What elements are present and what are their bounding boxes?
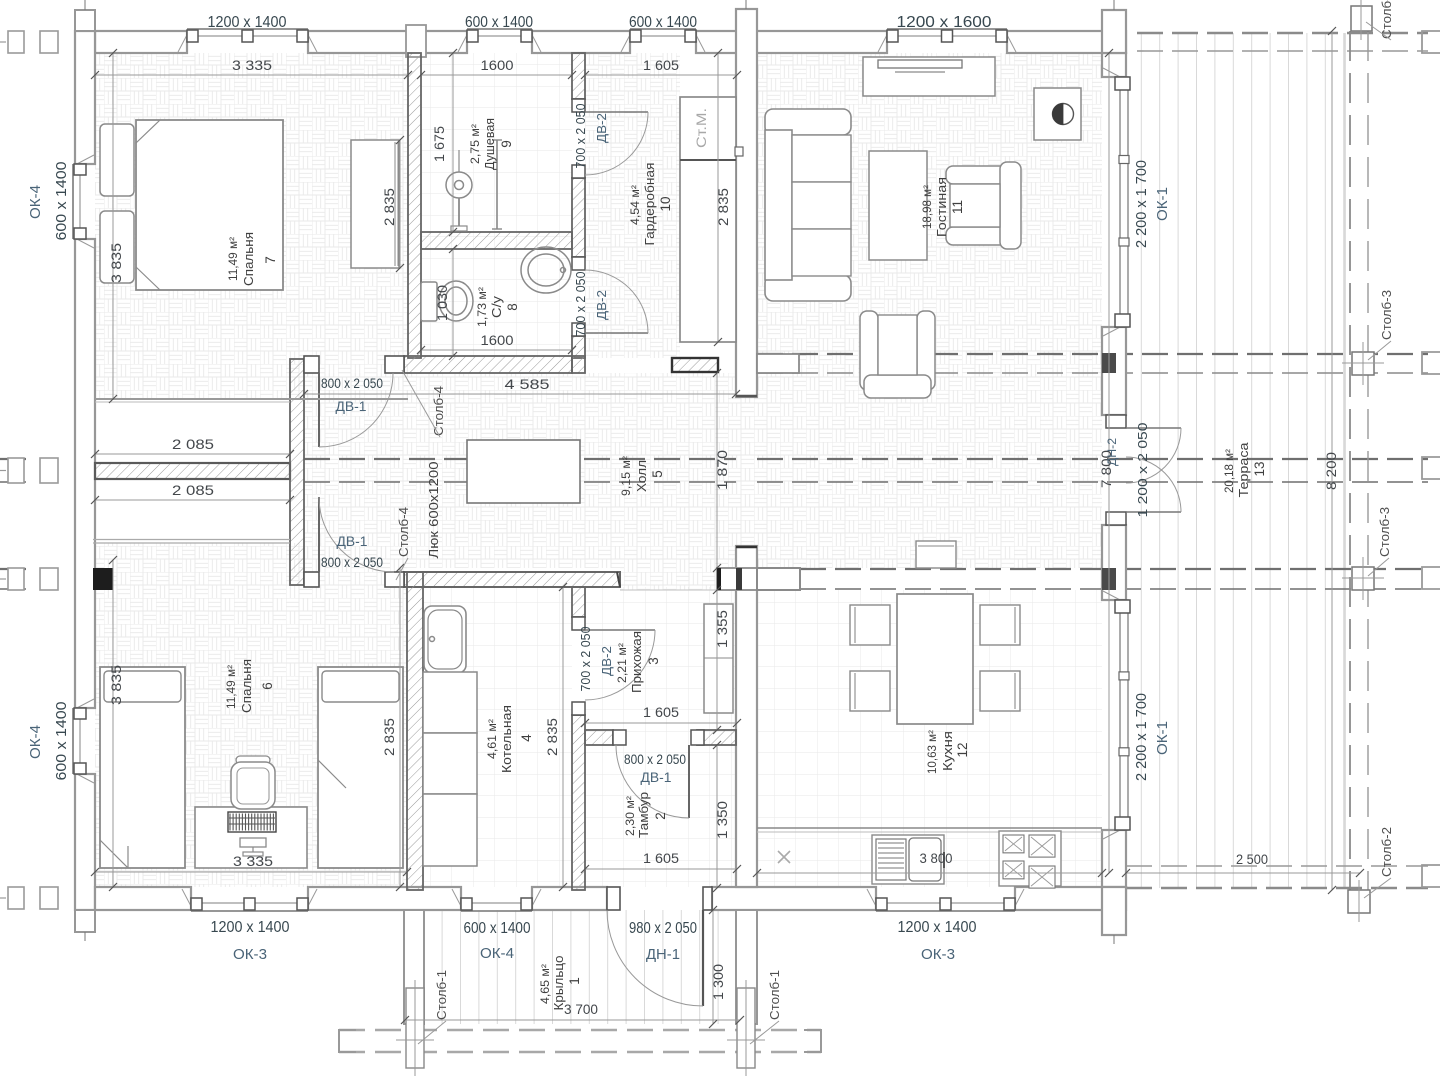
svg-text:600 x 1400: 600 x 1400 [464,920,531,937]
dresser bedroom 7 [351,140,399,268]
svg-text:20,18 м²: 20,18 м² [1224,449,1236,493]
dimension 3335 bedroom 6 [95,871,407,873]
door terrace double 1200x2050 with swing arcs [1106,415,1126,428]
svg-text:Столб-3: Столб-3 [1380,290,1394,340]
dimension 2835 bedroom 6 vertical [399,568,401,887]
svg-text:4,65 м²: 4,65 м² [540,964,552,1004]
wall central vertical upper [736,9,757,397]
dimension 1675 shower vertical [452,53,454,232]
floor parquet hall-living opening [736,397,757,546]
terrace post stolb-2 bottom right [1348,890,1370,913]
svg-text:8: 8 [505,303,520,311]
door DV-1 tambour with swing arc [613,730,626,745]
dimension 3700 porch [405,1019,740,1021]
svg-text:1200 x 1400: 1200 x 1400 [211,919,290,936]
svg-text:1 605: 1 605 [643,850,679,866]
svg-text:1 200 х 2 050: 1 200 х 2 050 [1135,423,1150,518]
svg-text:700 x 2 050: 700 x 2 050 [573,104,588,169]
svg-text:6: 6 [260,682,275,690]
svg-text:9,15 м²: 9,15 м² [621,456,633,496]
dimension 1605 tambour [585,868,737,870]
svg-text:7: 7 [263,256,278,264]
dimension 3335 bedroom 7 [95,74,408,76]
kitchen sink with drainer [872,835,944,884]
monitor on desk [240,838,266,847]
armchair 2 living room [860,311,878,390]
svg-text:3 335: 3 335 [233,853,273,869]
floor parquet dressing room 10 [585,53,680,358]
sofa living room 11 [765,109,851,135]
svg-text:4,61 м²: 4,61 м² [487,719,499,759]
porch post foundation right [737,988,755,1068]
svg-text:800 x 2 050: 800 x 2 050 [321,376,383,391]
svg-text:13: 13 [1252,461,1267,476]
svg-text:Тамбур: Тамбур [637,792,651,838]
bed double bedroom 7 [136,120,283,290]
svg-text:8 200: 8 200 [1324,452,1339,490]
log wall stubs left at y=31 [8,31,24,53]
svg-text:700 x 2 050: 700 x 2 050 [578,627,593,692]
svg-text:Столб-4: Столб-4 [397,507,411,557]
svg-text:ОК-1: ОК-1 [1155,721,1171,755]
window OK-3 top wall 1200x1400 [178,31,189,52]
desk chair bedroom 6 [236,756,270,764]
svg-text:3 835: 3 835 [109,243,124,283]
window OK-4b top wall 600x1400 [621,31,632,52]
svg-text:600 x 1400: 600 x 1400 [53,162,70,241]
bedroom7 niche line [95,398,290,400]
svg-text:Крыльцо: Крыльцо [552,955,566,1010]
svg-text:2 200 x 1 700: 2 200 x 1 700 [1133,160,1150,248]
dimension 3835 bedroom 7 vertical [112,53,114,399]
wall wc-dressing (hatched) segments with door openings [572,53,585,99]
floor tiles boiler room 4 [423,587,572,887]
svg-text:12: 12 [955,742,970,757]
svg-text:10,63 м²: 10,63 м² [927,730,939,774]
dark post at left wall axis B [93,568,113,590]
svg-text:Столб-2: Столб-2 [1380,827,1394,877]
dimension 1350 tambour vertical [716,745,718,888]
svg-text:2 085: 2 085 [172,436,214,452]
door DV-1 hall south with swing arc [318,497,320,572]
svg-text:1 350: 1 350 [715,801,730,839]
terrace dashed open side right [1349,31,1351,890]
porch step dashed lines with end brackets [339,1029,821,1032]
shower head symbol room 9 [446,172,472,198]
svg-text:1600: 1600 [481,332,514,348]
log post bottom-left corner [75,910,95,932]
svg-text:ДН-1: ДН-1 [646,946,680,963]
svg-text:Душевая: Душевая [483,118,497,170]
floor parquet hall 5 [304,373,736,568]
dimension 1355 entry vertical [716,590,718,730]
window OK-4 bottom porch 600x1400 [452,889,463,910]
svg-text:Холл: Холл [635,460,649,492]
svg-text:ДВ-1: ДВ-1 [641,770,672,785]
wall arm right of central wall at pair 1 [757,354,799,373]
svg-text:5: 5 [650,470,665,478]
door DV-1 hall north with swing arc [318,373,320,447]
svg-text:18,98 м²: 18,98 м² [922,185,934,229]
svg-text:Люк 600х1200: Люк 600х1200 [426,462,441,559]
post white at hall south door [385,572,404,587]
svg-text:11: 11 [950,200,965,214]
svg-text:ОК-4: ОК-4 [28,725,44,759]
svg-text:3: 3 [646,657,661,665]
floor tiles kitchen 12 [757,590,1102,887]
dimension 1300 porch vertical [712,910,714,1024]
svg-text:Спальня: Спальня [242,232,256,286]
svg-text:1200 x 1600: 1200 x 1600 [897,14,992,31]
log post cross top central wall [745,0,747,9]
wall partition corridor niches (hatched) [95,463,290,479]
svg-text:11,49 м²: 11,49 м² [228,237,240,281]
wall boiler-entry (hatched) with door opening [572,587,585,617]
svg-text:Гардеробная: Гардеробная [643,163,657,246]
svg-text:1 870: 1 870 [715,450,730,490]
log wall stubs left at y=887 [8,887,24,909]
svg-text:Столб-1: Столб-1 [768,970,782,1020]
svg-text:1: 1 [567,977,582,985]
dimension 2835 dresser vertical [399,140,401,268]
dimension 2085 corridor lower [95,499,290,501]
svg-text:1 675: 1 675 [432,126,447,162]
threshold hall-entry [620,589,717,591]
terrace post stolb-2 top right [1351,6,1372,31]
dimension 1600 wc bottom [421,349,572,351]
kitchen stove 4 burners [999,831,1061,886]
marker x on kitchen counter [778,851,790,863]
armchair 1 living room [946,166,1014,184]
svg-text:1 605: 1 605 [643,704,679,720]
svg-text:ОК-4: ОК-4 [480,945,514,962]
svg-text:Столб-4: Столб-4 [432,386,446,436]
keyboard on desk [228,812,276,832]
beam dashed pair axis A hall [0,458,30,460]
axis brackets far right [1422,31,1440,53]
dimension 1605 entry [585,722,737,724]
dimension 7800 right rooms vertical [1108,53,1110,873]
wall central vertical lower [736,546,757,887]
dimension 4585 hall [304,393,736,395]
beam dashed pair axis B kitchen [0,568,30,570]
wardrobe dressing room 10 with washing machine [680,97,736,342]
svg-text:980 x 2 050: 980 x 2 050 [629,920,697,937]
bathtub boiler room [424,606,466,673]
floor tiles shower 9 and wc 8 [421,53,572,358]
dimension 1030 wc vertical [452,249,454,356]
dimension 2835 wardrobe vertical [717,53,719,342]
dimension 1605 dressing [585,74,737,76]
svg-text:2 085: 2 085 [172,482,214,498]
porch post foundation left [406,988,424,1068]
svg-text:4: 4 [519,734,534,742]
svg-text:ДВ-1: ДВ-1 [336,399,367,414]
window OK-4a top wall 600x1400 [458,31,469,52]
svg-text:ДВ-2: ДВ-2 [594,290,609,320]
svg-text:1 355: 1 355 [715,610,730,648]
svg-text:2 835: 2 835 [382,188,397,226]
fireplace living room [1034,88,1081,140]
window OK-3 bottom-right 1200x1400 [867,889,878,910]
svg-text:2: 2 [653,812,668,820]
svg-text:ОК-4: ОК-4 [28,185,44,219]
door frame hall north door left [304,356,319,373]
porch wall right [736,910,757,1024]
svg-text:4 585: 4 585 [505,376,550,392]
dark post central wall at axis B [736,568,742,590]
desk bedroom 6 [195,807,307,868]
log wall stubs left at y=568 [8,568,24,590]
wall stub hall-entry divider [717,568,757,590]
terrace dashed edge top [1137,32,1428,34]
dimension 8200 terrace vertical [1331,31,1333,890]
door DV-2 dressing room with swing arc [572,99,585,112]
svg-text:2 835: 2 835 [382,718,397,756]
tv cabinet living room [863,57,995,96]
svg-text:1 300: 1 300 [711,964,726,1000]
wall stub dressing south (hatched) [672,358,718,372]
wall exterior right [1102,53,1126,77]
svg-text:11,49 м²: 11,49 м² [226,665,238,709]
toilet wc 8 [421,282,437,321]
shower glass partition [496,140,498,229]
svg-text:Столб-1: Столб-1 [435,970,449,1020]
dining chairs [850,605,890,645]
log post top-right corner [1102,10,1126,53]
log post top-left corner [75,10,95,31]
closet entry room 3 [704,604,733,713]
wall shower-wc divider (hatched) [421,232,572,249]
window OK-1 right wall kitchen 2200x1700 [1103,591,1124,602]
log post bottom-right corner [1102,887,1126,935]
coffee table living room [869,151,927,260]
wall entry-rooms south (hatched) [404,572,620,587]
window OK-4 left wall bedroom 6 [73,699,94,710]
svg-text:600 x 1400: 600 x 1400 [629,14,697,31]
boiler equipment cabinets [423,672,477,733]
svg-text:800 x 2 050: 800 x 2 050 [624,752,686,767]
wall exterior left [75,31,95,164]
wall exterior bottom [95,887,191,910]
svg-text:1200 x 1400: 1200 x 1400 [898,919,977,936]
dimension 1870 hall vertical [716,373,718,568]
window OK-4 left wall bedroom 7 [73,155,94,166]
wall bedroom7-shower (hatched) [408,53,421,358]
wall tambour north (hatched) with door opening [585,730,613,745]
svg-text:Терраса: Терраса [1237,442,1251,497]
bed single right bedroom 6 [318,667,403,868]
svg-text:ДВ-2: ДВ-2 [599,646,614,676]
svg-text:2 500: 2 500 [1236,851,1268,867]
svg-text:700 x 2 050: 700 x 2 050 [573,272,588,337]
svg-text:Гостиная: Гостиная [935,177,949,237]
svg-text:С/у: С/у [490,295,504,318]
floor parquet bedroom 6 [95,543,407,887]
svg-text:ОК-3: ОК-3 [233,946,267,963]
svg-text:600 x 1400: 600 x 1400 [465,14,533,31]
svg-text:1,73 м²: 1,73 м² [477,287,489,327]
dimension 2500 terrace [1126,872,1360,874]
wardrobe front line corridor bedroom6 niche [93,539,290,541]
svg-text:3 700: 3 700 [564,1001,598,1017]
door DN-1 entrance with swing arc [607,887,620,910]
door DV-2 wc with swing arc [572,257,585,270]
wall hall west (hatched) [290,359,304,585]
pillows bed bedroom 7 [100,124,134,196]
svg-text:ДВ-2: ДВ-2 [594,113,609,143]
floor parquet living-dining room 11 [757,53,1102,568]
floor parquet bedroom 7 [95,53,408,399]
log wall stubs left at y=458 [8,458,24,483]
dimension 1600 shower [421,74,572,76]
svg-text:2 200 x 1 700: 2 200 x 1 700 [1133,693,1150,781]
window top wall 1200x1600 [878,31,889,52]
dimension 3835 bedroom 6 vertical [112,560,114,887]
terrace post stolb-3 lower [1352,567,1374,590]
svg-text:Кухня: Кухня [941,731,955,771]
dimension 3800 kitchen [757,872,1102,874]
svg-text:ОК-1: ОК-1 [1155,187,1171,221]
dark post right wall at axis B [1102,568,1116,590]
porch wall left [404,910,424,1024]
wall bedroom6-boiler (hatched) [407,572,423,890]
svg-text:3 335: 3 335 [232,57,272,73]
svg-text:1 605: 1 605 [643,57,679,73]
beam dashed pair living-dining boundary [757,353,1428,355]
dimension 2085 corridor upper [95,453,290,455]
svg-text:ДН-2: ДН-2 [1105,438,1119,466]
kitchen counter along bottom wall [757,827,1102,829]
wall hall north side (hatched) [404,356,572,373]
svg-text:10: 10 [658,196,673,211]
svg-text:2,75 м²: 2,75 м² [470,124,482,164]
svg-text:600 x 1400: 600 x 1400 [53,702,70,781]
svg-text:ОК-3: ОК-3 [921,946,955,963]
svg-text:4,54 м²: 4,54 м² [630,185,642,225]
svg-text:2,21 м²: 2,21 м² [617,643,629,683]
door DV-2 boiler room with swing arc [572,617,585,630]
svg-text:Котельная: Котельная [500,705,514,773]
svg-text:Спальня: Спальня [240,659,254,713]
window OK-1 right wall living room 2200x1700 [1103,68,1124,79]
porch deck planks [404,910,757,1024]
floor parquet hall passage [620,568,717,590]
svg-text:Столб-3: Столб-3 [1378,507,1392,557]
dimension 2835 boiler vertical [562,587,564,887]
svg-text:Ст.М.: Ст.М. [693,108,709,148]
svg-text:Прихожая: Прихожая [630,631,644,693]
svg-text:800 x 2 050: 800 x 2 050 [321,555,383,570]
bed single left bedroom 6 [100,667,185,868]
svg-text:3 800: 3 800 [920,850,953,866]
door frame hall south door left [304,572,319,587]
svg-text:1 030: 1 030 [435,285,450,321]
wall kitchen arm at dashed pair B [757,568,800,590]
terrace post stolb-3 upper [1352,352,1374,375]
svg-text:1600: 1600 [481,57,514,73]
svg-text:ДВ-1: ДВ-1 [337,534,368,549]
svg-text:1200 x 1400: 1200 x 1400 [208,14,287,31]
dining table kitchen 12 [897,594,973,724]
svg-text:3 835: 3 835 [109,665,124,705]
terrace dashed edge bottom [1126,865,1428,867]
washbasin wc 8 [521,247,571,293]
wall exterior top [95,31,187,53]
svg-text:2 835: 2 835 [716,188,731,226]
svg-text:9: 9 [499,140,514,148]
post white at hall north door [385,356,404,373]
log post top at interior wall junction [406,25,426,57]
svg-text:2,30 м²: 2,30 м² [625,796,637,836]
floor tiles entry 3 and tambour 2 [585,587,736,887]
hatch Luk 600x1200 in hall floor [467,440,580,503]
terrace deck planks [1126,33,1345,888]
chair at table head [916,541,956,568]
dark post right wall at pair 1 [1102,353,1116,373]
svg-text:2 835: 2 835 [545,718,560,756]
window OK-3 bottom-left 1200x1400 [182,889,193,910]
